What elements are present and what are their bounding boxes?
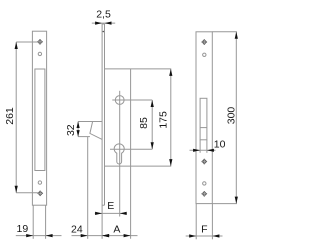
dim 32 arrow down (77, 130, 80, 137)
left plate bottom screw (37, 190, 43, 196)
dim E line (95, 212, 127, 214)
dim 32 arrow up (77, 122, 80, 129)
svg-text:175: 175 (157, 111, 169, 129)
svg-text:F: F (201, 223, 207, 235)
svg-text:E: E (107, 200, 114, 212)
dim 300 arrow down (235, 197, 238, 204)
left plate lower hole (38, 181, 41, 184)
svg-text:2,5: 2,5 (96, 9, 111, 21)
dim F arrow left (189, 234, 196, 237)
dim 175 line (170, 69, 172, 166)
dim 300 extension top (212, 31, 237, 33)
dim 85 arrow up (151, 100, 154, 107)
dim 261 arrow down (15, 186, 18, 193)
lock case back (130, 69, 132, 239)
svg-text:24: 24 (71, 223, 83, 235)
dim E arrow right (120, 212, 127, 215)
faceplate back line (104, 24, 106, 205)
faceplate top cap (102, 23, 104, 25)
lock case top (105, 68, 172, 70)
dim 10 arrow left (193, 149, 200, 152)
svg-text:85: 85 (138, 117, 150, 129)
dim E arrow left (95, 212, 102, 215)
dim 19 arrow right (46, 234, 53, 237)
lock case bottom (105, 165, 172, 167)
dim 300 arrow up (235, 32, 238, 39)
right plate top screw (201, 39, 207, 45)
dim 19 arrow left (26, 234, 33, 237)
dim 261 line (15, 42, 17, 193)
dim 175 arrow down (169, 159, 172, 166)
right plate upper hole (203, 53, 206, 56)
right plate middle screw (201, 159, 207, 165)
faceplate pin mark (103, 31, 105, 33)
dim 261 arrow up (15, 42, 18, 49)
left plate outline (32, 31, 46, 205)
faceplate front line (101, 24, 103, 239)
dim F arrow right (212, 234, 219, 237)
svg-text:261: 261 (4, 107, 16, 125)
vertical centre line (119, 91, 121, 217)
dim 261 extension top (16, 41, 37, 43)
cylinder horizontal centre line (110, 148, 152, 150)
dim 10 extension right (206, 140, 208, 153)
left plate top screw (37, 39, 43, 45)
right plate slot (200, 98, 207, 140)
dim 24 extension (87, 137, 89, 239)
cylinder keyhole (114, 144, 124, 164)
dim 2,5 arrow left (95, 22, 102, 25)
dim 32 extension bottom (78, 136, 90, 138)
right plate bottom screw (201, 191, 207, 197)
left plate slot (35, 69, 45, 171)
dim 32 extension top / bolt top (78, 121, 102, 123)
dim 10 arrow right (207, 149, 214, 152)
bolt (90, 122, 102, 140)
dim A arrow left (102, 234, 109, 237)
dim 32 line (77, 122, 79, 137)
dim 24 arrow left (81, 234, 88, 237)
svg-text:A: A (113, 223, 120, 235)
dim 261 extension bottom (16, 192, 38, 194)
dim 2,5 arrow right (105, 22, 112, 25)
dim 2,5 line (92, 22, 115, 24)
hub circle (115, 96, 124, 105)
dim 10 line (190, 149, 216, 151)
svg-text:300: 300 (226, 107, 238, 125)
dim 19 line (16, 235, 62, 237)
dim 300 extension bottom (212, 203, 237, 205)
dim 85 arrow down (151, 142, 154, 149)
dim 85 line (151, 100, 153, 149)
left plate upper hole (38, 52, 41, 55)
right plate lower hole (203, 182, 206, 185)
dim 300 line (235, 32, 237, 204)
right plate slot divider (200, 127, 207, 129)
svg-text:32: 32 (65, 124, 77, 136)
dim 10 extension left (199, 140, 201, 153)
dim F line (186, 235, 223, 237)
dim 24 and A line (72, 235, 138, 237)
svg-text:10: 10 (214, 138, 226, 150)
hub horizontal centre line (112, 99, 152, 101)
dim 175 arrow up (169, 69, 172, 76)
faceplate bottom cap (102, 204, 104, 206)
dim 24 arrow right (102, 234, 109, 237)
dim 19 extension left (32, 205, 34, 239)
right plate outline (196, 32, 212, 204)
dim A arrow right (124, 234, 131, 237)
dim F extension right (211, 204, 213, 240)
svg-text:19: 19 (17, 223, 29, 235)
dim F extension left (195, 204, 197, 240)
dim 19 extension right (45, 205, 47, 239)
